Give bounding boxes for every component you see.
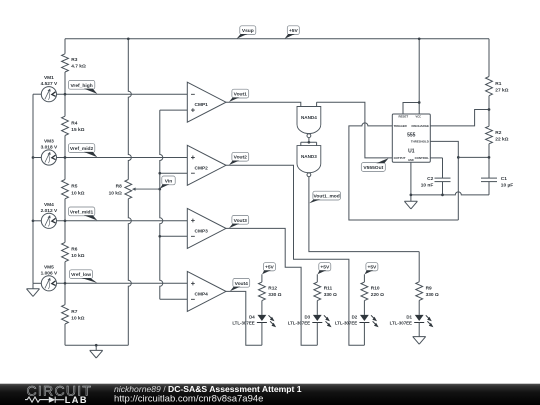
svg-text:CMP1: CMP1 xyxy=(195,102,209,108)
svg-text:Vref_mid2: Vref_mid2 xyxy=(70,146,94,152)
svg-text:VCC: VCC xyxy=(416,115,422,119)
svg-text:1.006 V: 1.006 V xyxy=(41,270,58,276)
svg-text:330 Ω: 330 Ω xyxy=(268,292,281,298)
svg-text:CMP4: CMP4 xyxy=(195,291,209,297)
svg-text:Vref_low: Vref_low xyxy=(71,272,91,278)
svg-text:R10: R10 xyxy=(371,285,380,291)
svg-text:R3: R3 xyxy=(71,57,77,63)
svg-text:CMP3: CMP3 xyxy=(195,228,209,234)
svg-text:CMP2: CMP2 xyxy=(195,165,209,171)
svg-text:D3: D3 xyxy=(304,314,310,319)
svg-text:LTL-307EE: LTL-307EE xyxy=(288,321,310,326)
svg-text:27 kΩ: 27 kΩ xyxy=(495,88,508,94)
svg-text:Vout4: Vout4 xyxy=(235,281,249,287)
svg-text:Vout1: Vout1 xyxy=(234,92,248,98)
svg-text:http://circuitlab.com/cnr8v8sa: http://circuitlab.com/cnr8v8sa7a94e xyxy=(114,394,263,405)
svg-text:THRESHOLD: THRESHOLD xyxy=(411,140,429,144)
svg-text:NAND4: NAND4 xyxy=(301,115,317,120)
svg-text:2.012 V: 2.012 V xyxy=(41,208,58,214)
svg-text:D4: D4 xyxy=(249,314,255,319)
svg-text:R4: R4 xyxy=(71,120,77,126)
svg-text:VM5: VM5 xyxy=(44,264,54,270)
svg-text:R8: R8 xyxy=(116,184,122,190)
svg-text:10 kΩ: 10 kΩ xyxy=(109,190,122,196)
svg-text:TRIGGER: TRIGGER xyxy=(394,124,408,128)
svg-text:R9: R9 xyxy=(426,285,432,291)
svg-text:DISCHARGE: DISCHARGE xyxy=(412,124,429,128)
svg-text:+5V: +5V xyxy=(367,265,377,271)
svg-text:R6: R6 xyxy=(71,247,77,253)
svg-text:10 kΩ: 10 kΩ xyxy=(71,190,84,196)
svg-text:OUTPUT: OUTPUT xyxy=(394,156,406,160)
svg-text:C1: C1 xyxy=(501,176,507,182)
svg-text:220 Ω: 220 Ω xyxy=(371,292,384,298)
svg-text:U1: U1 xyxy=(408,149,415,155)
svg-text:330 Ω: 330 Ω xyxy=(426,292,439,298)
svg-text:R11: R11 xyxy=(324,285,333,291)
svg-text:CONTROL: CONTROL xyxy=(415,156,430,160)
svg-text:4.527 V: 4.527 V xyxy=(41,81,58,87)
svg-text:+5V: +5V xyxy=(289,28,299,34)
svg-text:R1: R1 xyxy=(495,81,501,87)
svg-text:Vsup: Vsup xyxy=(242,28,254,34)
svg-text:D2: D2 xyxy=(352,314,358,319)
svg-text:GND: GND xyxy=(408,159,414,162)
svg-text:R5: R5 xyxy=(71,184,77,190)
svg-text:R7: R7 xyxy=(71,309,77,315)
svg-text:V555Out: V555Out xyxy=(363,165,383,171)
svg-text:LAB: LAB xyxy=(65,395,88,405)
svg-text:VM3: VM3 xyxy=(44,139,54,145)
svg-text:D1: D1 xyxy=(406,314,412,319)
svg-text:LTL-307EE: LTL-307EE xyxy=(335,321,357,326)
svg-text:Vout3: Vout3 xyxy=(234,218,248,224)
svg-text:C2: C2 xyxy=(427,176,433,182)
svg-text:VM4: VM4 xyxy=(44,202,54,208)
svg-text:4.7 kΩ: 4.7 kΩ xyxy=(71,63,86,69)
svg-text:R2: R2 xyxy=(495,130,501,136)
svg-text:330 Ω: 330 Ω xyxy=(324,292,337,298)
svg-text:10 kΩ: 10 kΩ xyxy=(71,316,84,322)
svg-text:10 nF: 10 nF xyxy=(421,182,434,188)
svg-text:555: 555 xyxy=(407,132,416,138)
svg-text:10 kΩ: 10 kΩ xyxy=(71,253,84,259)
svg-text:+5V: +5V xyxy=(320,265,330,271)
svg-text:R12: R12 xyxy=(268,285,277,291)
svg-text:NAND3: NAND3 xyxy=(301,154,317,159)
svg-text:RESET: RESET xyxy=(399,115,409,119)
svg-text:10 µF: 10 µF xyxy=(501,182,513,188)
svg-text:nickhorne89 / DC-SA&S Assessme: nickhorne89 / DC-SA&S Assessment Attempt… xyxy=(114,384,302,394)
svg-text:Vin: Vin xyxy=(165,178,173,184)
svg-text:3.018 V: 3.018 V xyxy=(41,145,58,151)
svg-text:22 kΩ: 22 kΩ xyxy=(495,137,508,143)
svg-text:15 kΩ: 15 kΩ xyxy=(71,127,84,133)
svg-text:Vout2: Vout2 xyxy=(234,155,248,161)
svg-text:+5V: +5V xyxy=(265,265,275,271)
svg-text:Vref_mid1: Vref_mid1 xyxy=(70,209,94,215)
svg-text:LTL-307EE: LTL-307EE xyxy=(232,321,254,326)
svg-text:Vref_high: Vref_high xyxy=(70,83,92,89)
svg-text:LTL-307EE: LTL-307EE xyxy=(390,321,412,326)
svg-text:VM1: VM1 xyxy=(44,75,54,81)
svg-text:Vout1_mod: Vout1_mod xyxy=(314,194,340,200)
